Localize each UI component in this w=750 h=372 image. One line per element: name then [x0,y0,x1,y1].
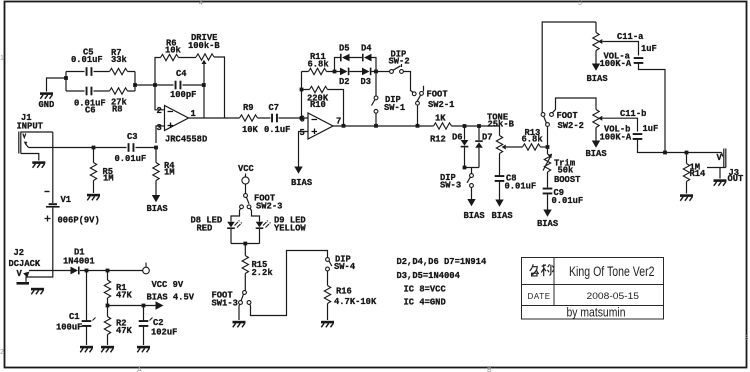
capacitor C1 100uF [86,271,88,346]
ground (J1 sleeve) [32,163,45,168]
svg-text:FOOT: FOOT [427,90,449,100]
capacitor C8 0.01uF [495,175,505,182]
node: D7 junction [477,124,481,128]
svg-text:47K: 47K [116,291,133,301]
wire: C3 to pin3/R4 node [136,148,157,163]
svg-text:D2: D2 [339,77,350,87]
svg-text:J2: J2 [14,248,25,258]
svg-text:SW2-3: SW2-3 [256,202,282,212]
ground (SW1-3) [233,322,246,327]
svg-text:R16: R16 [336,287,352,297]
resistor R7 [110,68,128,74]
svg-text:3: 3 [578,0,582,7]
svg-text:R9: R9 [243,103,254,113]
svg-text:BOOST: BOOST [554,175,581,185]
svg-text:7: 7 [336,117,341,127]
node: input line R5 junction [92,146,96,150]
node: C4 right / wiper junction [202,83,206,87]
svg-text:0.01uF: 0.01uF [71,55,103,65]
svg-text:BIAS: BIAS [147,204,168,214]
svg-text:GND: GND [39,100,55,110]
diode D6 (points down) [464,126,466,168]
svg-text:V: V [17,269,23,279]
svg-text:IC 4=GND: IC 4=GND [404,298,446,308]
resistor R11 6.8k [309,68,327,74]
svg-text:C6: C6 [85,106,96,116]
svg-text:INPUT: INPUT [17,122,44,132]
svg-text:R12: R12 [430,135,446,145]
switch DIP SW-3 [470,174,474,178]
svg-text:1K: 1K [435,114,446,124]
svg-text:SW-2: SW-2 [389,57,410,67]
diode D7 (points up) [478,126,480,168]
wire: to DIP SW-2 [376,72,413,93]
node: C1 junction on power rail [85,269,89,273]
svg-text:SW2-2: SW2-2 [558,121,584,131]
node: LED rail junction [243,242,247,246]
svg-text:100K-A: 100K-A [600,133,632,143]
node: R1 junction on power rail [106,269,110,273]
svg-text:6.8k: 6.8k [522,135,544,145]
ground (R2) [101,347,114,352]
svg-text:006P(9V): 006P(9V) [58,216,100,226]
svg-text:1uF: 1uF [643,124,659,134]
svg-text:R10: R10 [310,100,326,110]
svg-text:C11-a: C11-a [617,32,644,42]
resistor R1 47K [107,271,109,346]
switch DIP SW-2 [390,70,394,74]
ground (C5/C6 left node) [40,94,53,99]
svg-text:10K: 10K [242,125,259,135]
svg-text:C2: C2 [153,318,164,328]
svg-text:25k-B: 25k-B [488,120,515,130]
svg-text:4.7K-10K: 4.7K-10K [334,297,377,307]
wire: R5 top and bottom [93,148,95,194]
diode D3 (points right) [362,68,370,76]
svg-text:5: 5 [300,128,305,138]
svg-text:SW-3: SW-3 [440,181,461,191]
wire: C6 bottom branch [66,90,135,92]
wire: C5 top branch [66,71,135,73]
svg-text:0.01uF: 0.01uF [505,182,537,192]
svg-text:BIAS: BIAS [291,178,312,188]
svg-text:0.01uF: 0.01uF [552,196,584,206]
capacitor C5 [86,67,93,76]
svg-text:10k: 10k [165,46,182,56]
capacitor C2 100uF [143,306,145,346]
BIAS flag (VOL-a) [592,64,600,71]
svg-text:FOOT: FOOT [557,111,579,121]
LED D9 YELLOW (points down) [256,222,264,228]
resistor R14 1M [686,153,688,194]
resistor R4 [153,163,159,181]
capacitor C9 0.01uF [543,188,553,195]
svg-text:100k-B: 100k-B [188,41,220,51]
svg-text:OUT: OUT [728,174,745,184]
svg-text:6.8k: 6.8k [308,60,330,70]
svg-text:1: 1 [191,109,196,119]
battery V1 006P(9V) [52,132,54,203]
svg-text:BIAS 4.5V: BIAS 4.5V [147,293,195,303]
node: C2 junction on bias rail [142,304,146,308]
op-amp U2 [308,113,333,139]
wire: SW1-3 left throw to ground [238,304,241,320]
potentiometer VOL-b 100K-A [593,110,599,128]
wire: DRIVE wiper stem down through C4 right node to U1 output line [203,62,205,118]
capacitor C7 0.1uF [271,114,278,123]
resistor R2 47K [104,317,110,335]
svg-text:JRC4558D: JRC4558D [165,135,207,145]
svg-text:0.1uF: 0.1uF [264,125,290,135]
BIAS flag (U2 pin5) [294,167,302,174]
title block [522,258,664,320]
svg-text:D3,D5=1N4004: D3,D5=1N4004 [397,271,461,281]
wire: GND stub to C5/C6 left node [47,78,67,92]
svg-text:A: A [137,367,142,372]
svg-text:2: 2 [0,349,4,356]
wire: power rail from DC jack to VCC [29,270,143,272]
wire: right node vertical and out to node A [135,72,155,92]
wire: U2 output line [333,125,500,127]
wire: SW2-2 left throw up to channel A line [542,22,596,113]
trimmer Trim 50k BOOST [547,147,549,188]
power symbol VCC 9V [143,267,150,274]
svg-text:BIAS: BIAS [586,149,607,159]
node: channel A join junction [663,151,667,155]
node: U2 pin6 feedback junction [300,116,304,120]
node A junction (C4 left / R6 / pin2) [153,83,157,87]
capacitor C11-a 1uF [634,57,644,64]
resistor R16 4.7K-10K [327,271,329,320]
wire: SW2-3 left throw to D8 [231,208,241,221]
resistor R12 1K [434,123,452,129]
svg-text:SW1-3: SW1-3 [212,299,238,309]
capacitor C6 [86,87,93,96]
svg-text:C4: C4 [176,69,187,79]
capacitor C11-b 1uF [633,133,643,140]
svg-text:102uF: 102uF [151,328,177,338]
resistor R9 10K [240,115,258,121]
ground (R14) [680,196,693,201]
BIAS flag (C8) [495,200,503,207]
wire: diode rows [335,58,377,72]
BIAS flag (below R4) [152,195,160,202]
LED D8 RED (points down) [227,222,235,228]
svg-text:RED: RED [197,224,213,234]
svg-text:3: 3 [157,123,162,133]
node: DIP SW-1 tap on output line [374,124,378,128]
svg-text:DATE: DATE [528,292,551,301]
svg-text:R14: R14 [690,169,707,179]
op-amp U1 JRC4558D [165,106,189,131]
diode D1 1N4001 [71,267,79,275]
node: diode network left junction [333,70,337,74]
wire: node A through C4 [155,84,204,86]
svg-text:SW2-1: SW2-1 [428,100,454,110]
svg-text:C7: C7 [269,103,280,113]
svg-text:D5: D5 [339,44,350,54]
ground (below R5) [87,195,100,200]
svg-text:VCC: VCC [238,164,255,174]
ground (C1) [80,347,93,352]
svg-text:VCC 9V: VCC 9V [152,280,184,290]
node: diode network right junction [374,70,378,74]
wire: C11-a to channel summing line [639,64,666,153]
wire: SW2-2 right throw up to VOL-b line [553,98,597,113]
svg-text:by matsumin: by matsumin [567,305,626,320]
svg-text:D3: D3 [361,77,372,87]
svg-text:IC 8=VCC: IC 8=VCC [404,285,447,295]
switch FOOT SW2-2 [547,127,549,148]
svg-text:100K-A: 100K-A [600,59,632,69]
svg-text:C3: C3 [127,132,138,142]
capacitor C4 [175,81,182,90]
resistor R10 220K [310,86,328,92]
resistor R13 6.8k [523,144,541,150]
wire: D6/D7 common to DIP SW-3 [465,168,480,174]
svg-text:BIAS: BIAS [492,211,513,221]
node: R14 junction [685,151,689,155]
svg-text:1N4001: 1N4001 [63,257,95,267]
svg-text:33k: 33k [111,55,128,65]
svg-text:BIAS: BIAS [537,219,558,229]
svg-text:D6: D6 [452,133,463,143]
svg-text:King Of Tone Ver2: King Of Tone Ver2 [569,264,655,279]
svg-text:YELLOW: YELLOW [274,224,306,234]
svg-text:C1: C1 [69,312,80,322]
wire: SW1-3 right throw over to DIP SW-4 [250,251,328,316]
svg-text:1uF: 1uF [641,44,657,54]
wire: U1 output line to R9 [189,117,271,119]
node: boost node junction [546,145,550,149]
svg-text:1: 1 [0,55,4,62]
svg-text:C11-b: C11-b [620,109,646,119]
svg-text:DCJACK: DCJACK [9,259,41,269]
diode D2 (points right) [340,68,348,76]
svg-text:50k: 50k [558,166,575,176]
ground (R16) [321,322,334,327]
capacitor C3 [128,143,135,152]
potentiometer DRIVE 100k-B [196,54,214,60]
node: R1/R2 bias junction [106,304,110,308]
switch FOOT SW1-3 [243,291,247,295]
wire: TONE wiper to R13 [506,146,523,148]
node: C5/C6 left junction [64,76,68,80]
node: C5/C6 right junction [133,83,137,87]
wire: VOL-b wiper to C11-b [602,118,637,131]
svg-text:3: 3 [745,335,749,342]
svg-text:R8: R8 [112,105,123,115]
wire: LED common rail [231,244,260,256]
diode D4 (points left) [362,54,364,62]
node: R10 feedback tap on output line [342,124,346,128]
ground (DC jack) [31,289,44,294]
svg-text:47K: 47K [116,326,133,336]
svg-text:SW-1: SW-1 [384,103,405,113]
svg-text:2.2k: 2.2k [252,268,274,278]
svg-text:B: B [487,367,492,372]
switch FOOT SW2-3 [244,194,248,198]
svg-text:D2,D4,D6 D7=1N914: D2,D4,D6 D7=1N914 [397,257,487,267]
svg-text:V1: V1 [61,195,72,205]
resistor R6 [161,54,179,60]
svg-text:100pF: 100pF [170,90,196,100]
svg-text:BIAS: BIAS [587,74,608,84]
wire: input line from jack J1 to C3 [29,147,127,149]
node: R10 left junction [300,88,304,92]
wire: R4 bottom to BIAS arrow [155,181,157,196]
svg-text:SW-4: SW-4 [334,262,356,272]
svg-text:2008-05-15: 2008-05-15 [587,291,640,302]
svg-text:4: 4 [199,0,203,7]
ground (J3 sleeve) [714,181,727,186]
node: C3 right / R4 / pin3 junction [154,146,158,150]
resistor R15 2.2k [242,256,248,274]
wire: node A up to R6, R6 to DRIVE [155,58,196,86]
wire: SW2-3 right throw to D9 [250,208,260,221]
wire: VOL-a wiper to C11-a [602,42,638,56]
wire: left node vertical between C5 and C6 branches [65,72,67,92]
BIAS flag (VOL-b) [592,141,600,148]
switch DIP SW-4 [326,258,330,262]
switch DIP SW-1 [375,74,377,125]
BIAS flag (C9) [543,210,551,217]
wire: feedback vertical to R11/R10 [302,72,344,126]
node: FOOT SW2-1 tap on output line [416,124,420,128]
wire: node A down to U1 pin2 [155,85,165,110]
resistor R8 [110,88,128,94]
switch FOOT SW2-1 [412,92,416,96]
wire: bias rail to arrow [108,305,156,307]
wire: output line to jack J3 [638,140,722,153]
wire: U1 pin3 down to input line [156,126,165,143]
svg-text:100uF: 100uF [56,323,82,333]
svg-text:0.01uF: 0.01uF [115,154,147,164]
BIAS flag (DIP SW-3) [467,199,475,206]
svg-text:BIAS: BIAS [464,211,485,221]
svg-text:6: 6 [300,115,305,125]
svg-text:1M: 1M [103,174,114,184]
title block CJK label (meishou) [530,264,554,276]
node: D6 junction [463,124,467,128]
wire: DRIVE right end down to U1 output line [214,57,225,118]
potentiometer TONE 25k-B [499,126,501,176]
diode D5 (points left) [340,54,342,62]
wire: C7 to U2 pin6 [279,117,309,119]
svg-text:1M: 1M [164,168,175,178]
potentiometer VOL-a 100K-A [595,22,597,64]
svg-text:D4: D4 [361,44,372,54]
ground (C2) [137,347,150,352]
BIAS 4.5V flag (right arrow) [156,301,164,309]
svg-text:D7: D7 [482,133,493,143]
svg-text:2: 2 [157,106,162,116]
wire: R13 to boost node [541,146,548,148]
wire: U2 pin5 to BIAS [299,132,309,167]
resistor R5 [90,163,96,181]
